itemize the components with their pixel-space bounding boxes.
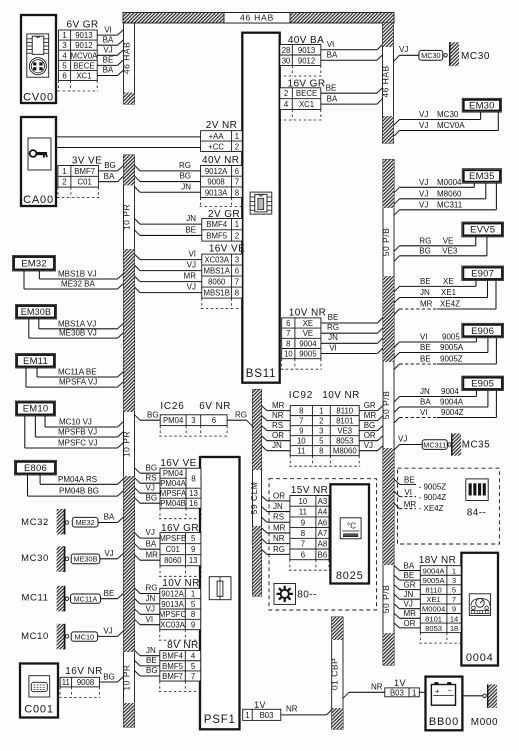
- svg-text:BG: BG: [179, 172, 191, 181]
- svg-text:OR: OR: [364, 431, 376, 440]
- wire VJ MCV0A from 46 HAB bar to EM30: [394, 131, 400, 137]
- svg-text:VE: VE: [303, 329, 313, 338]
- svg-text:PSF1: PSF1: [204, 714, 236, 726]
- svg-text:MCV0A: MCV0A: [437, 121, 465, 130]
- svg-text:8: 8: [286, 339, 290, 348]
- svg-text:50 P/B: 50 P/B: [381, 228, 391, 257]
- svg-text:VE3: VE3: [337, 427, 352, 436]
- connector box E907: [462, 266, 504, 281]
- svg-text:ME30B: ME30B: [74, 555, 98, 564]
- svg-text:9004A: 9004A: [423, 566, 446, 575]
- wire MPSFA VJ from EM11 to 10 PR bar: [25, 368, 27, 387]
- svg-text:1: 1: [452, 566, 456, 575]
- connector box EM30B: [16, 305, 57, 320]
- wire JN XE1 from 50 P/B bar to E907: [394, 298, 400, 304]
- wire BE BS11 BECE to 46 HAB bar: [321, 92, 377, 94]
- svg-text:5: 5: [191, 534, 196, 543]
- svg-text:6V NR: 6V NR: [199, 401, 230, 412]
- wire MPSFB VJ from EM10 to 10 PR bar: [34, 416, 36, 437]
- svg-text:3: 3: [452, 576, 456, 585]
- svg-text:BA: BA: [327, 51, 338, 60]
- wire MC11A BE from EM11 to 10 PR bar: [36, 368, 38, 377]
- svg-text:RS: RS: [146, 473, 157, 482]
- svg-text:BS11: BS11: [246, 368, 276, 380]
- component CA00 (ignition switch): [21, 117, 56, 206]
- component 84 (DIP connector) icon: [466, 479, 488, 501]
- svg-text:C01: C01: [77, 178, 91, 187]
- svg-text:46 HAB: 46 HAB: [240, 13, 274, 23]
- wire VJ MC311 from 50 P/B bar to EM35: [394, 210, 400, 216]
- svg-text:0004: 0004: [466, 652, 494, 664]
- svg-text:BG: BG: [146, 463, 158, 472]
- svg-text:EVV5: EVV5: [470, 225, 495, 236]
- svg-text:80--: 80--: [297, 589, 316, 600]
- svg-text:MR: MR: [146, 550, 159, 559]
- svg-text:MBS1A VJ: MBS1A VJ: [58, 319, 96, 328]
- svg-text:CA00: CA00: [23, 194, 54, 206]
- svg-text:PM04B BG: PM04B BG: [59, 487, 99, 496]
- svg-text:2: 2: [284, 89, 288, 98]
- svg-text:6: 6: [235, 167, 239, 176]
- svg-text:8V NR: 8V NR: [167, 640, 198, 651]
- svg-text:10: 10: [284, 350, 293, 359]
- svg-text:BE: BE: [146, 656, 157, 665]
- svg-text:16V VE: 16V VE: [209, 243, 245, 254]
- svg-text:MC32: MC32: [21, 517, 49, 528]
- svg-text:9: 9: [191, 545, 195, 554]
- svg-text:MR: MR: [404, 609, 417, 618]
- wire VJ MC30 from 46 HAB bar to EM30: [394, 120, 400, 126]
- wire BA BS11 XC1 to 46 HAB bar: [321, 103, 377, 105]
- svg-text:8: 8: [191, 610, 195, 619]
- svg-text:8060: 8060: [164, 556, 182, 565]
- svg-text:9012: 9012: [298, 56, 315, 65]
- svg-text:IC92: IC92: [289, 390, 313, 401]
- svg-text:PM04A: PM04A: [160, 479, 186, 488]
- svg-text:1: 1: [62, 167, 66, 176]
- svg-text:XE1: XE1: [426, 595, 440, 604]
- svg-text:CV00: CV00: [23, 92, 54, 104]
- svg-text:VI: VI: [104, 25, 112, 34]
- svg-text:- XE4Z: - XE4Z: [419, 504, 444, 513]
- svg-text:XE: XE: [443, 277, 454, 286]
- svg-text:MC11A: MC11A: [74, 594, 98, 603]
- svg-text:JN: JN: [272, 441, 282, 450]
- svg-text:MC10: MC10: [75, 632, 94, 641]
- wire NR 01 CBP bar to BB00 B03: [343, 692, 349, 698]
- svg-text:2V NR: 2V NR: [206, 120, 237, 131]
- svg-text:1: 1: [319, 407, 323, 416]
- svg-text:MC11A BE: MC11A BE: [58, 368, 97, 377]
- svg-text:BMF5: BMF5: [162, 662, 183, 671]
- svg-text:8110: 8110: [336, 407, 353, 416]
- svg-text:RS: RS: [273, 513, 284, 522]
- wires 59 CLM bar to 15V NR labels OR JN RS MR NR RG: [262, 496, 268, 501]
- svg-text:XE: XE: [303, 319, 313, 328]
- svg-text:NR: NR: [286, 705, 298, 714]
- svg-text:BMF4: BMF4: [206, 220, 227, 229]
- svg-text:VJ: VJ: [404, 600, 413, 609]
- svg-text:9013A: 9013A: [205, 188, 228, 197]
- svg-text:16: 16: [189, 499, 198, 508]
- wire JN 9004 from 50 P/B bar to E905: [394, 397, 400, 403]
- svg-text:JN: JN: [181, 182, 191, 191]
- svg-text:XE4Z: XE4Z: [440, 300, 460, 309]
- svg-text:RG: RG: [146, 584, 158, 593]
- wires BS11 10V NR to 50 P/B bar labels BE RG JN VI: [321, 322, 378, 324]
- svg-text:A6: A6: [318, 518, 328, 527]
- svg-text:A3: A3: [318, 497, 328, 506]
- dashed boundary box around 8025 heater unit: [269, 479, 377, 610]
- svg-text:PM04B: PM04B: [160, 499, 186, 508]
- svg-text:VJ: VJ: [103, 46, 112, 55]
- wire ME30B VJ from EM30B to 10 PR bar: [28, 319, 30, 338]
- svg-text:9012: 9012: [75, 41, 92, 50]
- svg-text:MR: MR: [364, 411, 377, 420]
- svg-text:MC11: MC11: [21, 593, 48, 604]
- svg-text:7: 7: [299, 417, 303, 426]
- svg-text:13: 13: [189, 489, 198, 498]
- svg-text:E905: E905: [471, 379, 494, 390]
- wire CA00 to BS11 +CC: [56, 147, 201, 149]
- svg-text:3: 3: [62, 41, 66, 50]
- svg-text:RG: RG: [235, 411, 247, 420]
- component 80 (air conditioning) snowflake icon: [274, 584, 296, 605]
- svg-text:RS: RS: [272, 421, 283, 430]
- wires CV00 to 46 HAB with labels VI BA VJ BE BA: [97, 34, 117, 36]
- svg-text:14: 14: [450, 614, 458, 623]
- svg-text:VI: VI: [404, 488, 412, 497]
- wire harness bar 46 HAB vertical left: [124, 23, 135, 104]
- svg-text:MR: MR: [273, 523, 286, 532]
- wire VJ M0004 from 50 P/B bar to EM35: [394, 187, 400, 193]
- svg-text:16V GR: 16V GR: [161, 523, 199, 534]
- svg-text:9004: 9004: [441, 387, 459, 396]
- svg-text:1: 1: [245, 711, 249, 720]
- svg-text:PM04: PM04: [163, 469, 184, 478]
- connector box EVV5: [462, 222, 504, 237]
- svg-text:6: 6: [286, 319, 290, 328]
- svg-text:A4: A4: [318, 508, 328, 517]
- wire MPSFC VJ from EM10 to 10 PR bar: [24, 416, 26, 448]
- svg-text:9: 9: [299, 427, 303, 436]
- svg-text:1: 1: [191, 589, 195, 598]
- svg-text:10V NR: 10V NR: [322, 390, 359, 401]
- connector box EM10: [16, 401, 56, 416]
- svg-text:JN: JN: [186, 214, 196, 223]
- svg-text:EM30: EM30: [469, 100, 495, 111]
- svg-text:2: 2: [235, 142, 239, 151]
- svg-text:VJ: VJ: [419, 189, 428, 198]
- svg-text:RG: RG: [419, 236, 431, 245]
- wire BE 9005A from 50 P/B bar to E906: [394, 353, 400, 359]
- svg-text:BG: BG: [364, 421, 376, 430]
- svg-text:VJ: VJ: [419, 110, 428, 119]
- svg-text:MC35: MC35: [462, 440, 491, 451]
- svg-text:OR: OR: [272, 431, 284, 440]
- svg-text:OR: OR: [404, 619, 416, 628]
- wire BE -9005Z stub from 50 P/B bar: [394, 479, 400, 484]
- svg-text:B03: B03: [390, 688, 404, 697]
- svg-text:MR: MR: [184, 272, 197, 281]
- wire MBS1B VJ from EM32 to 10 PR bar: [38, 271, 40, 279]
- svg-text:ME32 BA: ME32 BA: [61, 280, 95, 289]
- svg-text:8101: 8101: [425, 614, 442, 623]
- svg-text:XC03A: XC03A: [204, 256, 230, 265]
- svg-text:RG: RG: [179, 161, 191, 170]
- svg-text:MC311: MC311: [423, 440, 446, 449]
- component CV00 (steering column switch module): [21, 15, 56, 103]
- svg-text:JN: JN: [328, 333, 338, 342]
- wire VI -9004Z stub from 50 P/B bar: [394, 491, 400, 496]
- svg-text:1: 1: [235, 132, 239, 141]
- svg-text:EM11: EM11: [23, 356, 48, 367]
- wire BG CA00 BMF7 to 10 PR bar: [98, 170, 117, 172]
- svg-text:7: 7: [235, 278, 239, 287]
- wire BB00 B03 to battery: [419, 691, 425, 693]
- svg-text:28: 28: [282, 46, 291, 55]
- svg-text:9013: 9013: [298, 46, 315, 55]
- svg-text:B03: B03: [260, 711, 274, 720]
- svg-text:BG: BG: [146, 666, 158, 675]
- svg-text:BG: BG: [104, 161, 116, 170]
- wire NR PSF1 B03 to 01 CBP bar: [281, 714, 327, 716]
- svg-text:VI: VI: [329, 343, 337, 352]
- svg-text:BE: BE: [103, 56, 114, 65]
- svg-text:8025: 8025: [336, 570, 364, 582]
- svg-text:1: 1: [62, 31, 66, 40]
- svg-text:BE: BE: [328, 313, 339, 322]
- svg-text:9004: 9004: [299, 339, 317, 348]
- svg-text:BB00: BB00: [429, 716, 459, 728]
- svg-text:A8: A8: [318, 540, 328, 549]
- svg-text:9: 9: [301, 518, 305, 527]
- svg-text:1V: 1V: [254, 700, 266, 710]
- connector box EM35: [462, 169, 501, 184]
- svg-text:BECE: BECE: [73, 61, 94, 70]
- svg-text:VJ: VJ: [364, 441, 373, 450]
- svg-text:84--: 84--: [467, 508, 486, 519]
- svg-text:VI: VI: [327, 40, 335, 49]
- connector box EM30: [462, 98, 501, 112]
- svg-text:9005A: 9005A: [440, 343, 464, 352]
- svg-text:MC30: MC30: [461, 51, 490, 62]
- svg-text:10V NR: 10V NR: [289, 308, 326, 319]
- svg-text:NR: NR: [371, 682, 383, 691]
- wire VJ M8060 from 50 P/B bar to EM35: [394, 199, 400, 205]
- wire BE 9005Z from 50 P/B bar to E906 (dashed): [394, 364, 400, 370]
- svg-text:MPSFB VJ: MPSFB VJ: [58, 428, 97, 437]
- svg-text:JN: JN: [273, 502, 283, 511]
- svg-text:JN: JN: [404, 590, 414, 599]
- svg-text:10 PR: 10 PR: [121, 204, 131, 230]
- wire BA BS11 9012 to 46 HAB bar: [321, 59, 377, 61]
- svg-text:XC1: XC1: [76, 71, 91, 80]
- svg-text:JN: JN: [146, 594, 156, 603]
- svg-text:+CC: +CC: [208, 142, 224, 151]
- svg-text:5: 5: [191, 600, 196, 609]
- wire VI BS11 9013 to 46 HAB bar: [321, 49, 377, 51]
- svg-text:5: 5: [319, 437, 324, 446]
- svg-text:MBS1B: MBS1B: [203, 289, 229, 298]
- svg-text:9008: 9008: [207, 178, 224, 187]
- svg-text:11: 11: [297, 447, 305, 456]
- svg-text:C001: C001: [24, 704, 54, 716]
- svg-text:A7: A7: [318, 529, 328, 538]
- component C001 (diagnostic connector): [20, 664, 58, 718]
- svg-text:EM30B: EM30B: [21, 307, 52, 317]
- svg-text:VJ: VJ: [104, 549, 113, 558]
- svg-text:E906: E906: [471, 326, 494, 337]
- svg-text:VI: VI: [146, 615, 154, 624]
- svg-text:8101: 8101: [336, 417, 353, 426]
- svg-text:MR: MR: [420, 300, 433, 309]
- wire RG IC26 to 59 CLM bar: [227, 419, 246, 421]
- svg-text:MC30: MC30: [21, 553, 49, 564]
- svg-text:8053: 8053: [336, 437, 353, 446]
- svg-text:MCV0A: MCV0A: [70, 51, 98, 60]
- svg-text:+AA: +AA: [209, 132, 225, 141]
- svg-text:9004A: 9004A: [440, 398, 464, 407]
- svg-text:6: 6: [212, 416, 216, 425]
- svg-text:16V VE: 16V VE: [160, 458, 196, 469]
- svg-text:8: 8: [301, 529, 305, 538]
- svg-text:10 PR: 10 PR: [121, 431, 131, 457]
- svg-text:6: 6: [235, 267, 239, 276]
- svg-text:8: 8: [299, 407, 303, 416]
- svg-text:BA: BA: [103, 35, 114, 44]
- svg-text:RG: RG: [327, 323, 339, 332]
- svg-text:9004Z: 9004Z: [441, 408, 464, 417]
- svg-text:MC10 VJ: MC10 VJ: [59, 418, 92, 427]
- svg-text:XC03A: XC03A: [160, 621, 186, 630]
- svg-text:16V NR: 16V NR: [65, 666, 102, 677]
- wire BE XE from 50 P/B bar to E907: [394, 286, 400, 292]
- svg-text:8: 8: [191, 475, 196, 484]
- svg-text:IC26: IC26: [160, 401, 184, 412]
- svg-text:NR: NR: [272, 411, 284, 420]
- wire harness bar 01 CBP: [332, 617, 343, 729]
- svg-text:GR: GR: [364, 401, 376, 410]
- svg-text:BMF7: BMF7: [162, 672, 183, 681]
- svg-text:−: −: [448, 686, 453, 695]
- svg-text:01 CBP: 01 CBP: [330, 658, 340, 690]
- svg-text:EM35: EM35: [469, 171, 495, 182]
- svg-text:EM10: EM10: [23, 404, 49, 415]
- svg-text:XC1: XC1: [299, 100, 314, 109]
- svg-text:10: 10: [299, 497, 308, 506]
- svg-text:4: 4: [284, 100, 289, 109]
- svg-text:JN: JN: [420, 387, 430, 396]
- svg-text:BG: BG: [419, 246, 431, 255]
- svg-text:VI: VI: [188, 250, 196, 259]
- svg-text:6V GR: 6V GR: [66, 20, 98, 31]
- svg-text:BE: BE: [420, 343, 431, 352]
- svg-text:9013A: 9013A: [161, 600, 184, 609]
- svg-text:MC10: MC10: [21, 631, 49, 642]
- svg-text:BE: BE: [326, 84, 337, 93]
- svg-text:VJ: VJ: [187, 261, 196, 270]
- wires 59 CLM bar to IC92 labels MR NR RS OR JN: [262, 406, 268, 411]
- ground MC35 via MC311: [394, 445, 400, 451]
- svg-text:50 P/B: 50 P/B: [381, 391, 391, 420]
- svg-text:MR: MR: [272, 401, 285, 410]
- svg-text:9: 9: [452, 605, 456, 614]
- svg-text:MPSFB: MPSFB: [159, 534, 186, 543]
- svg-text:4: 4: [191, 652, 196, 661]
- svg-text:MPSFC: MPSFC: [159, 610, 187, 619]
- svg-text:18V NR: 18V NR: [419, 555, 456, 566]
- svg-text:1: 1: [412, 688, 416, 697]
- svg-text:M0004: M0004: [437, 178, 462, 187]
- wire MR XE4Z from 50 P/B bar to E907 (dashed): [394, 309, 400, 315]
- svg-text:BG: BG: [147, 411, 159, 420]
- svg-text:VJ: VJ: [419, 121, 428, 130]
- svg-text:9005: 9005: [299, 350, 317, 359]
- svg-text:VI: VI: [420, 333, 428, 342]
- svg-text:11: 11: [299, 508, 307, 517]
- svg-text:ME32: ME32: [76, 518, 95, 527]
- svg-text:46 HAB: 46 HAB: [380, 65, 390, 97]
- svg-text:M8060: M8060: [333, 447, 358, 456]
- svg-text:VJ: VJ: [398, 434, 407, 443]
- svg-text:8: 8: [319, 447, 323, 456]
- svg-text:5: 5: [191, 662, 196, 671]
- svg-text:BECE: BECE: [296, 89, 317, 98]
- svg-text:VJ: VJ: [419, 178, 428, 187]
- wire harness bar 46 HAB horizontal top: [123, 13, 394, 24]
- svg-text:BMF4: BMF4: [162, 652, 183, 661]
- svg-text:BA: BA: [104, 513, 115, 522]
- svg-text:50 P/B: 50 P/B: [381, 585, 391, 614]
- svg-text:13: 13: [189, 556, 198, 565]
- connector box EM32: [13, 256, 56, 272]
- svg-text:E907: E907: [471, 268, 494, 279]
- connector box EM11: [16, 354, 56, 369]
- wire MC10 VJ from EM10 to 10 PR bar: [44, 416, 46, 427]
- wire harness bar 50 P/B right: [383, 160, 394, 666]
- wire VI 9005 from 50 P/B bar to E906: [394, 342, 400, 348]
- wires 10 PR bar to PSF1 8V NR labels JN BE BG: [135, 650, 141, 656]
- wires IC92 to 50 P/B bar labels GR MR BG OR VJ: [359, 410, 377, 412]
- svg-text:BA: BA: [404, 561, 415, 570]
- svg-text:XE1: XE1: [441, 288, 457, 297]
- svg-text:JN: JN: [146, 646, 156, 655]
- svg-text:1V: 1V: [394, 678, 406, 688]
- svg-text:3: 3: [235, 256, 239, 265]
- svg-text:- 9005Z: - 9005Z: [419, 483, 447, 492]
- svg-text:7: 7: [191, 672, 195, 681]
- wire harness bar 59 CLM: [253, 390, 262, 597]
- wires 10 PR bar to PSF1 16V VE labels BG RS VJ BG: [135, 468, 141, 474]
- component 0004 (instrument cluster): [461, 553, 498, 666]
- svg-text:7: 7: [301, 540, 305, 549]
- svg-text:8060: 8060: [208, 278, 226, 287]
- connector box E905: [462, 376, 504, 390]
- wire BA 9004A from 50 P/B bar to E905: [394, 407, 400, 413]
- svg-text:7: 7: [452, 595, 456, 604]
- connector box E906: [462, 323, 504, 338]
- svg-text:MPSFA VJ: MPSFA VJ: [59, 378, 97, 387]
- svg-text:BMF7: BMF7: [74, 167, 95, 176]
- svg-text:MC30: MC30: [421, 51, 440, 60]
- svg-text:BE: BE: [404, 571, 415, 580]
- svg-text:BE: BE: [104, 589, 115, 598]
- svg-text:MPSFC VJ: MPSFC VJ: [58, 439, 98, 448]
- connector box E806: [15, 460, 57, 475]
- svg-text:GR: GR: [404, 581, 416, 590]
- wires 10 PR bar to BS11 40V NR with labels RG BG JN: [135, 165, 141, 171]
